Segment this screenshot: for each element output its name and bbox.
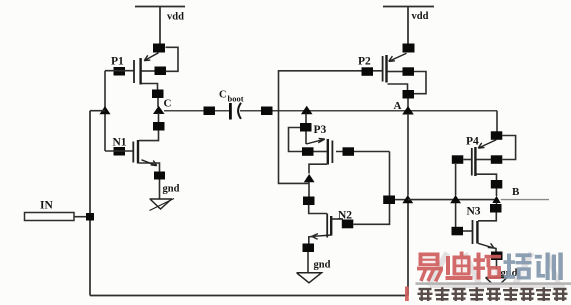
terminal pad P1 source to vdd [153,44,165,53]
wire P3 source upper [305,114,307,124]
wire IN to rail [74,216,87,218]
transistor P1 [134,53,159,90]
P2 channel bar [385,55,387,83]
svg-text:N1: N1 [113,137,127,149]
P2 source arrow [389,53,407,61]
N2 source arrow [312,234,332,240]
capacitor C_boot [229,103,241,120]
junction P4-N3 gate column [450,195,461,203]
P3 channel bar [327,139,329,165]
wire node A column lower [407,203,409,296]
wire P2 drain to node A [407,99,409,108]
char di red [446,252,473,281]
junction P3 source column [301,106,313,115]
watermark slogan text [418,287,568,301]
port IN box [25,213,75,221]
node B junction [492,196,500,203]
wire node B down [496,203,498,205]
vdd supply right [383,7,434,44]
svg-text:B: B [512,186,520,198]
terminal pad P3 drain [303,197,315,206]
P4 drain stub [477,174,497,180]
ground symbol N1 [150,199,175,211]
transistor P3 [306,138,332,173]
P3 gate bar [331,141,333,164]
char yi red [417,253,443,282]
wire P2 gate lead [279,71,383,184]
svg-text:boot: boot [228,94,244,104]
terminal pad N1 drain upper [153,122,165,131]
terminal pad P2 source to vdd [403,44,415,53]
wire P4 gate column [455,164,457,196]
N2 drain stub [332,218,344,220]
terminal pad P3 gate [343,147,355,156]
terminal pad N3 drain upper [490,204,502,213]
watermark red tick bottom left [405,287,409,302]
terminal pad P4 bulk [491,155,503,164]
P4 bulk stub [477,159,492,161]
watermark gray echo [426,251,565,291]
watermark underline [416,282,571,285]
P4 gate bar [471,148,473,176]
wire N2 drain to cross column [354,204,390,225]
terminal pad C_boot right [261,107,273,116]
terminal pad IN [86,213,94,221]
N2 source stub [309,236,314,243]
terminal pad P1 drain [152,90,164,99]
N3 channel bar [476,221,478,244]
terminal pad N1 source [154,172,165,180]
wire P4 bulk-source loop [502,136,515,160]
terminal pad P4 gate [452,155,464,164]
node A junction [402,106,414,115]
char pei blue [504,253,532,279]
svg-text:IN: IN [40,200,53,212]
wire P2 bulk-drain loop [414,72,426,94]
terminal pad N2 source [303,244,315,253]
vdd supply left [135,7,185,44]
terminal pad C_boot left [204,107,216,116]
junction node A column at B rail [402,195,413,203]
N2 channel bar [330,216,332,236]
P1 source arrow [144,53,158,61]
wire P1 drain to node C [157,98,159,107]
svg-text:P4: P4 [466,136,479,148]
terminal pad P4 source [491,131,503,140]
P1 bulk stub [142,70,155,72]
wire P1 gate lead [105,70,134,72]
wire P3 bulk-source loop [289,128,303,152]
wire left gate column [104,71,106,151]
transistor N3 [473,220,497,252]
junction left gate column [100,106,111,114]
terminal pad P3 bulk [302,147,314,156]
wire node C to C_boot [164,110,229,112]
terminal pad N3 gate [452,227,464,236]
N1 channel bar [137,140,139,164]
ground symbol N3 [486,278,508,288]
svg-text:vdd: vdd [412,11,429,22]
char xun blue [535,253,563,281]
transistor P4 [472,140,497,180]
C_boot left plate [229,103,232,120]
ground symbol N2 [297,273,322,283]
wire P1 bulk-source loop [166,47,179,71]
wire P3 source lower [305,132,307,145]
svg-text:P1: P1 [111,56,124,68]
P3 bulk stub [313,151,327,153]
svg-text:N3: N3 [467,206,481,218]
N3 source arrow [478,243,494,248]
wire N3 gate column [455,203,457,227]
wire junction to IN rail [90,110,105,112]
wire N3 source to gnd [496,260,498,277]
svg-text:P3: P3 [314,124,327,136]
wire N1 source to gnd [159,180,161,199]
wire A wire to P4 [496,111,498,132]
wire P4 drain to node B [496,189,498,197]
transistor N2 [309,214,343,244]
wire B rail [408,199,497,201]
wire N1 gate lead [105,150,133,152]
wire IN rail vertical [89,111,91,296]
svg-text:gnd: gnd [163,184,180,195]
P4 source arrow [478,140,496,148]
transistor N1 [133,140,159,172]
P3 source arrow [306,138,325,144]
wire P3 gate to cross column [336,151,390,153]
P4 channel bar [474,147,476,176]
N1 source stub [139,163,160,172]
terminal pad P2 gate [362,67,374,76]
char tuo red [474,253,502,280]
terminal pad P4 drain [491,180,503,189]
terminal pad N1 gate [114,147,126,156]
wire N2 source to gnd [307,252,309,272]
N3 source stub [491,247,496,251]
wire node C down [158,113,160,122]
N3 gate bar [472,220,474,244]
svg-text:C: C [164,98,172,110]
wire N2 gate lead [309,205,327,214]
svg-text:vdd: vdd [167,12,184,23]
wire node A down [407,114,409,196]
svg-text:P2: P2 [358,56,371,68]
terminal pad P1 bulk [155,67,167,76]
P1 gate bar [133,60,135,83]
wire N3 drain [478,213,496,221]
svg-text:gnd: gnd [314,260,331,271]
terminal pad N3 source [491,252,503,261]
wire bottom return [90,295,408,297]
C_boot right plate [238,103,241,119]
terminal pad P2 drain [403,90,415,99]
label C_boot [219,90,244,104]
P2 bulk stub [388,71,404,73]
wire cross column upper [389,152,391,196]
N1 gate bar [132,142,134,163]
P2 drain stub [388,84,408,90]
P1 drain stub [142,84,158,90]
junction P3 drain [304,174,315,182]
svg-text:A: A [394,100,402,112]
wire C_boot to node A [240,110,497,112]
wire P3 drain to pad [308,182,310,197]
P1 channel bar [139,58,141,85]
wire cross pad to node A column [395,199,408,201]
terminal pad P2 bulk [403,67,415,76]
terminal pad P1 gate [114,67,126,76]
N2 gate bar [326,214,328,238]
svg-text:C: C [219,90,227,101]
wire P4 gate lead [463,159,471,161]
wire B output [501,199,549,201]
watermark logo text red [405,252,563,302]
terminal pad P3 source [300,123,312,132]
node C junction [153,106,165,114]
P3 drain stub [309,164,327,173]
terminal pad cross column [383,196,395,205]
transistor P2 [383,53,408,90]
N1 source arrow [142,160,157,166]
wire N1 drain [139,131,159,141]
P2 gate bar [382,56,384,82]
terminal pad N2 drain [342,220,354,229]
wire N3 gate lead [463,230,472,232]
